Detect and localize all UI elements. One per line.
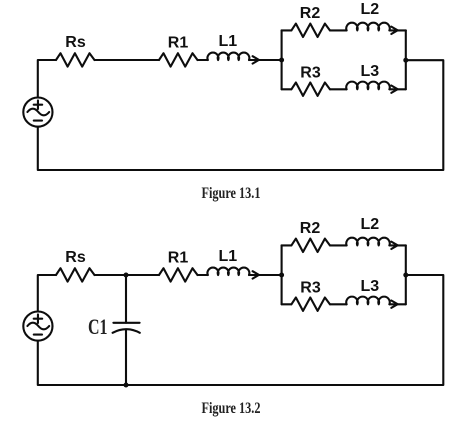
inductor L2 (Fig 13.2) — [346, 238, 390, 246]
node E junction dot (Fig 13.2) — [403, 273, 408, 278]
svg-text:L2: L2 — [360, 1, 379, 18]
inductor L3 (Fig 13.1) — [346, 82, 390, 90]
inductor L3 (Fig 13.2) — [346, 297, 390, 305]
svg-text:Rs: Rs — [65, 249, 86, 266]
svg-text:L3: L3 — [360, 63, 379, 80]
resistor R3 (Fig 13.2) — [291, 298, 330, 311]
node A junction dot (Fig 13.1) — [279, 58, 284, 63]
resistor R1 (Fig 13.1) — [159, 53, 198, 66]
svg-text:R1: R1 — [168, 250, 189, 267]
inductor L1 (Fig 13.1) — [207, 53, 249, 60]
wire: L2 to node E with current arrow — [389, 244, 405, 246]
wire: node D to R3 — [282, 303, 292, 305]
node C junction dot (top of C1) — [124, 273, 129, 278]
wire: R1 to L1 — [198, 59, 208, 61]
wire: node A to R2 — [282, 29, 292, 31]
resistor R3 (Fig 13.1) — [291, 83, 330, 96]
wire: right vertical of parallel block (Fig 13.2) — [405, 245, 407, 304]
wire: node D to R2 — [282, 244, 292, 246]
wire: node C to R1 — [126, 274, 159, 276]
wire: Rs to node C — [95, 274, 127, 276]
capacitor C1 curved bottom plate — [113, 329, 140, 333]
wire: L2 to node B with current arrow — [389, 29, 405, 31]
arrowhead after L3 — [391, 86, 397, 93]
svg-text:L2: L2 — [360, 216, 379, 233]
wire: capacitor C1 to bottom rail — [125, 330, 127, 385]
resistor R2 (Fig 13.2) — [291, 239, 330, 252]
svg-text:R3: R3 — [300, 280, 321, 297]
capacitor C1 top plate — [113, 322, 139, 324]
svg-text:R2: R2 — [300, 5, 321, 22]
arrowhead after L3 (Fig 13.2) — [391, 301, 397, 308]
arrowhead after L1 — [253, 56, 259, 63]
wire: R3 to L3 (Fig 13.2) — [330, 303, 347, 305]
wire: node B to right edge, bottom rail, back to source — [38, 60, 444, 170]
svg-text:R3: R3 — [300, 65, 321, 82]
svg-text:L3: L3 — [360, 278, 379, 295]
wire: right vertical of parallel block — [405, 30, 407, 89]
resistor Rs (Fig 13.1) — [56, 53, 95, 66]
wire: left vertical of parallel block (Fig 13.2) — [281, 245, 283, 304]
node D junction dot (Fig 13.2) — [279, 273, 284, 278]
wire: L3 to node B with current arrow — [389, 88, 405, 90]
wire: R1 to L1 (Fig 13.2) — [198, 274, 208, 276]
wire: L1 to node A with current arrow — [249, 59, 282, 61]
wire: left vertical of parallel block — [281, 30, 283, 89]
wire: source top to top rail corner (Fig 13.2) — [38, 275, 56, 312]
svg-text:Rs: Rs — [65, 34, 86, 51]
wire: R3 to L3 — [330, 88, 347, 90]
arrowhead after L1 (Fig 13.2) — [253, 271, 259, 278]
inductor L1 (Fig 13.2) — [207, 268, 249, 275]
AC voltage source (Fig 13.2) — [23, 312, 52, 341]
wire: R2 to L2 — [330, 29, 347, 31]
wire: Rs to R1 — [95, 59, 160, 61]
wire: source top to top rail corner — [38, 60, 56, 98]
arrowhead after L2 (Fig 13.2) — [391, 242, 397, 249]
svg-text:R1: R1 — [168, 35, 189, 52]
wire: node E to right edge, bottom rail, back to source (Fig 13.2) — [38, 275, 444, 385]
wire: node C down to capacitor C1 — [125, 275, 127, 323]
AC voltage source (Fig 13.1) — [23, 98, 52, 127]
arrowhead after L2 — [391, 27, 397, 34]
wire: L3 to node E with current arrow — [389, 303, 405, 305]
wire: node A to R3 — [282, 88, 292, 90]
wire: R2 to L2 (Fig 13.2) — [330, 244, 347, 246]
svg-text:Figure 13.2: Figure 13.2 — [202, 400, 261, 417]
wire: L1 to node D with current arrow — [249, 274, 282, 276]
inductor L2 (Fig 13.1) — [346, 23, 390, 31]
svg-text:R2: R2 — [300, 220, 321, 237]
svg-text:C1: C1 — [88, 314, 108, 339]
node F junction dot (bottom of C1) — [124, 383, 129, 388]
resistor R1 (Fig 13.2) — [159, 268, 198, 281]
svg-text:Figure 13.1: Figure 13.1 — [202, 185, 261, 202]
resistor R2 (Fig 13.1) — [291, 24, 330, 37]
node B junction dot (Fig 13.1) — [403, 58, 408, 63]
svg-text:L1: L1 — [218, 248, 237, 265]
svg-text:L1: L1 — [218, 33, 237, 50]
resistor Rs (Fig 13.2) — [56, 268, 95, 281]
